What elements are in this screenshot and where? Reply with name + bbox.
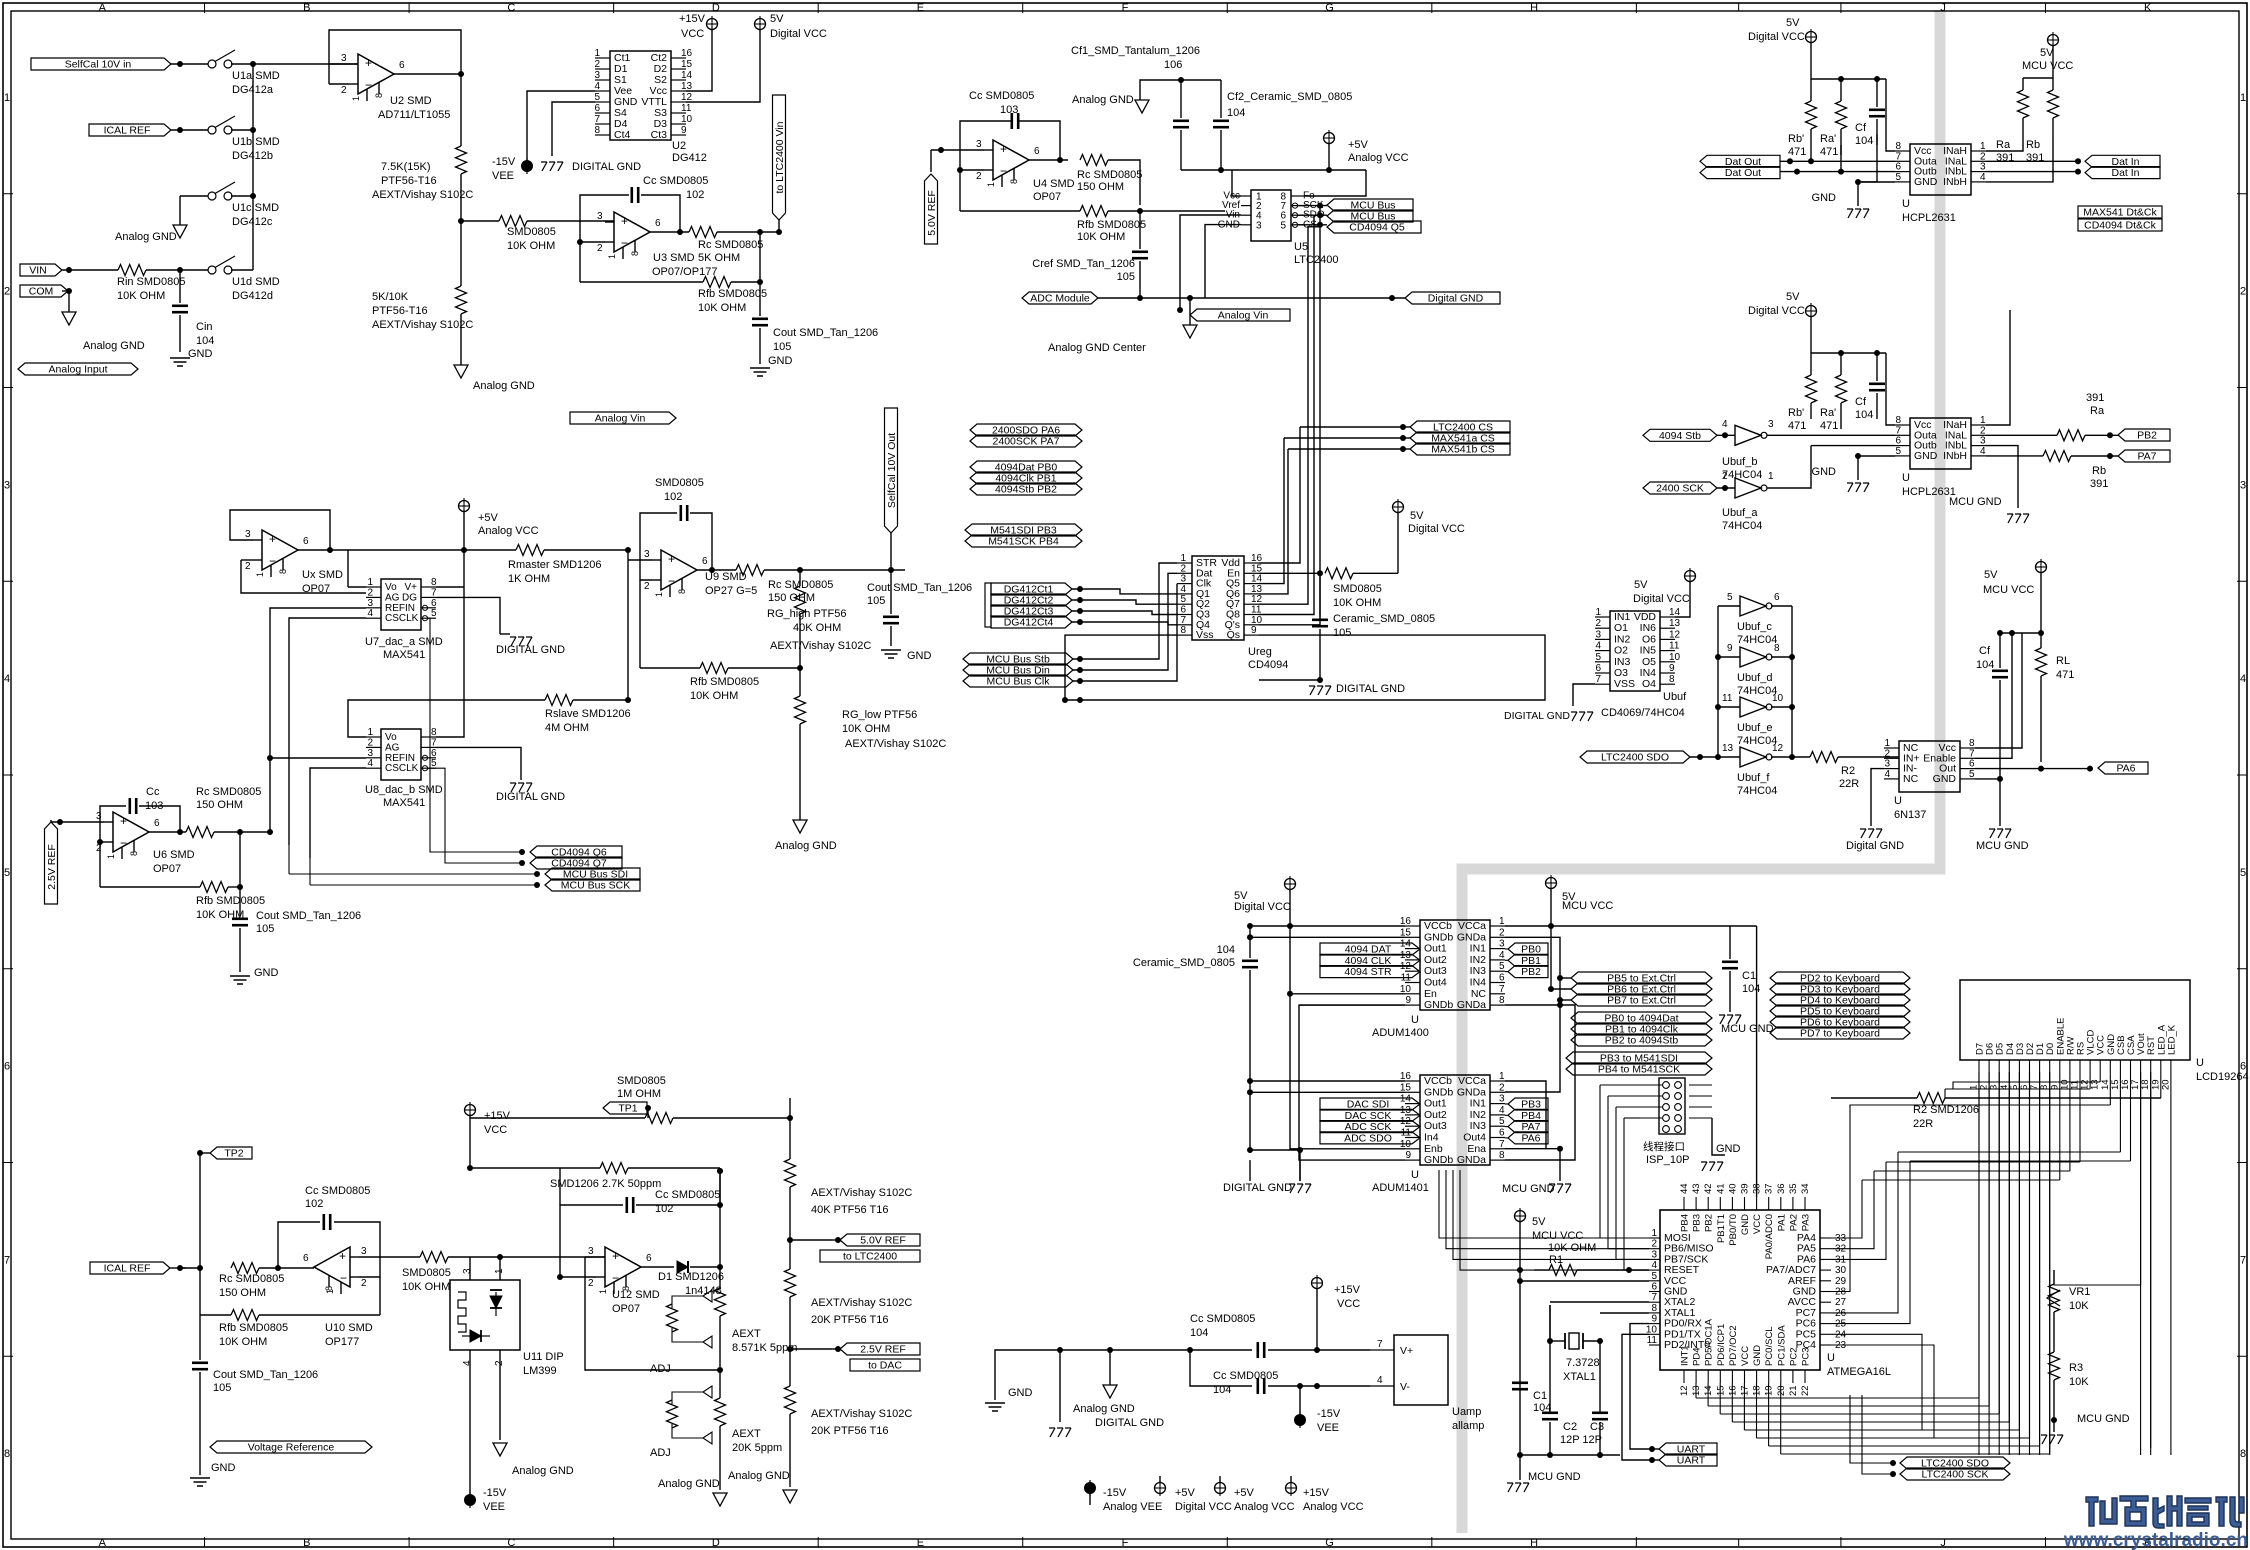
ground Analog GND xyxy=(1135,100,1149,113)
svg-text:Digital VCC: Digital VCC xyxy=(770,28,827,40)
wire feedback U9 xyxy=(640,513,677,580)
svg-text:MCU VCC: MCU VCC xyxy=(2022,60,2073,72)
svg-text:PA7: PA7 xyxy=(2137,451,2156,463)
IC U11 LM399 xyxy=(450,1280,520,1350)
wire VOut to VR1 xyxy=(2140,1072,2142,1285)
wire xyxy=(573,699,628,701)
power -15V VEE xyxy=(521,160,533,172)
wire xyxy=(298,549,330,551)
wire R2 row xyxy=(1831,1097,1917,1099)
svg-text:4: 4 xyxy=(1499,950,1505,961)
svg-text:9: 9 xyxy=(1251,625,1257,636)
svg-text:3: 3 xyxy=(594,70,600,81)
svg-text:1: 1 xyxy=(654,592,664,597)
wire xyxy=(1810,145,1812,161)
svg-text:3: 3 xyxy=(1499,1094,1505,1105)
wire GND pin5 xyxy=(1975,779,2000,826)
svg-text:PB2 to 4094Stb: PB2 to 4094Stb xyxy=(1605,1035,1679,1047)
wire VCCa2 xyxy=(1505,1081,1546,1149)
svg-text:Vo: Vo xyxy=(385,732,397,743)
analog switch U1d DG412d xyxy=(208,266,216,274)
svg-text:Dat Out: Dat Out xyxy=(1725,167,1761,179)
svg-text:LCD19264: LCD19264 xyxy=(2196,1071,2249,1083)
svg-text:GNDa: GNDa xyxy=(1457,931,1486,943)
wire 2.5V REF row xyxy=(790,1348,832,1350)
svg-text:105: 105 xyxy=(1333,627,1351,639)
svg-text:IN2: IN2 xyxy=(1470,1109,1487,1121)
svg-text:Analog GND: Analog GND xyxy=(1073,1403,1135,1415)
wire Qs loop xyxy=(1065,635,1177,700)
svg-text:5: 5 xyxy=(431,608,437,619)
svg-text:Cc SMD0805: Cc SMD0805 xyxy=(1190,1313,1255,1325)
net flag PD5 to Keyboard xyxy=(1770,1005,1910,1017)
svg-text:4: 4 xyxy=(367,608,373,619)
svg-text:AEXT/Vishay S102C: AEXT/Vishay S102C xyxy=(845,738,946,750)
svg-text:4: 4 xyxy=(1980,172,1986,183)
svg-text:6: 6 xyxy=(1034,146,1040,157)
svg-text:GND: GND xyxy=(1914,176,1938,188)
svg-text:In4: In4 xyxy=(1424,1132,1439,1144)
svg-text:16: 16 xyxy=(681,48,693,59)
svg-text:4: 4 xyxy=(1377,1375,1383,1386)
svg-text:104: 104 xyxy=(1855,409,1873,421)
op-amp U12 OP07 xyxy=(605,1247,641,1287)
wire DG xyxy=(436,597,500,634)
svg-text:1: 1 xyxy=(255,572,265,577)
svg-text:8: 8 xyxy=(1009,179,1019,184)
wire xyxy=(139,806,180,832)
wire xyxy=(231,63,253,65)
svg-text:11: 11 xyxy=(1669,641,1680,652)
capacitor Cout SMD_Tan_1206 (U6) xyxy=(232,917,248,920)
net flag DG412Ct4 xyxy=(991,616,1072,628)
svg-text:IN3: IN3 xyxy=(1470,965,1487,977)
svg-text:150 OHM: 150 OHM xyxy=(768,592,815,604)
wire xyxy=(448,1256,605,1258)
svg-text:AEXT: AEXT xyxy=(732,1328,761,1340)
capacitor Cout SMD_Tan_1206 (U9) xyxy=(890,570,892,614)
IC U2 DG412 (quad switch) xyxy=(610,51,671,140)
svg-text:5: 5 xyxy=(594,92,600,103)
svg-text:102: 102 xyxy=(305,1198,323,1210)
svg-text:DIGITAL GND: DIGITAL GND xyxy=(1223,1182,1292,1194)
svg-text:4094Stb PB2: 4094Stb PB2 xyxy=(995,484,1057,496)
ground Analog GND (RG) xyxy=(793,820,807,833)
svg-text:Analog GND: Analog GND xyxy=(473,380,535,392)
svg-text:5: 5 xyxy=(1499,961,1505,972)
svg-text:27: 27 xyxy=(1835,1297,1847,1308)
power 5V Digital VCC (ADUM) xyxy=(1285,879,1296,890)
svg-text:GND: GND xyxy=(907,650,932,662)
svg-text:Rfb SMD0805: Rfb SMD0805 xyxy=(196,895,265,907)
svg-text:C2: C2 xyxy=(1563,1421,1577,1433)
wire xyxy=(2071,455,2118,457)
svg-text:OP07: OP07 xyxy=(153,863,181,875)
svg-text:MAX541: MAX541 xyxy=(383,797,425,809)
svg-text:2: 2 xyxy=(1651,1239,1657,1250)
wire feedback through Cc xyxy=(580,241,605,243)
net flag 5.0V REF (vertical) xyxy=(925,174,938,244)
wire Ext.Ctrl stubs xyxy=(1557,975,1563,981)
svg-text:AEXT: AEXT xyxy=(732,1428,761,1440)
net flag PB6 to Ext.Ctrl xyxy=(1571,983,1712,995)
svg-text:PTF56-T16: PTF56-T16 xyxy=(381,175,437,187)
net flag DG412Ct3 xyxy=(991,605,1072,617)
svg-text:391: 391 xyxy=(2086,392,2104,404)
svg-text:线程接口: 线程接口 xyxy=(1643,1140,1685,1153)
wire xyxy=(731,281,760,283)
svg-text:Analog VCC: Analog VCC xyxy=(1348,152,1409,164)
svg-text:Ra': Ra' xyxy=(1820,133,1836,145)
svg-text:U1d SMD: U1d SMD xyxy=(232,276,280,288)
wire xyxy=(728,667,800,669)
wire xyxy=(1519,1222,1521,1455)
svg-text:5V: 5V xyxy=(1634,579,1648,591)
svg-text:K: K xyxy=(2144,2,2152,14)
svg-text:PB7 to Ext.Ctrl: PB7 to Ext.Ctrl xyxy=(1607,995,1676,1007)
svg-text:Rc SMD0805: Rc SMD0805 xyxy=(219,1273,284,1285)
svg-text:10K OHM: 10K OHM xyxy=(1548,1242,1596,1254)
svg-text:+5V: +5V xyxy=(1175,1487,1196,1499)
svg-text:GNDb: GNDb xyxy=(1424,999,1453,1011)
svg-text:6: 6 xyxy=(431,598,437,609)
svg-text:4: 4 xyxy=(594,81,600,92)
svg-text:5: 5 xyxy=(431,758,437,769)
svg-text:Dat In: Dat In xyxy=(2111,167,2139,179)
svg-text:GND: GND xyxy=(1914,450,1938,462)
svg-text:V-: V- xyxy=(1400,1381,1410,1393)
svg-text:GNDa: GNDa xyxy=(1457,999,1486,1011)
svg-text:IN2: IN2 xyxy=(1470,954,1487,966)
svg-text:I: I xyxy=(1737,2,1740,14)
wire xyxy=(170,1267,186,1269)
svg-text:Analog GND: Analog GND xyxy=(1072,94,1134,106)
resistor SMD0805 1M OHM xyxy=(470,1117,645,1119)
svg-text:IN3: IN3 xyxy=(1614,656,1631,668)
wire V+ U8 xyxy=(436,587,464,737)
svg-text:Out1: Out1 xyxy=(1424,1098,1447,1110)
svg-text:ADC SDO: ADC SDO xyxy=(1344,1132,1392,1144)
svg-text:8: 8 xyxy=(1499,995,1505,1006)
svg-text:Out4: Out4 xyxy=(1424,977,1447,989)
wire xyxy=(1029,159,1068,161)
svg-text:IN6: IN6 xyxy=(1640,622,1657,634)
net flag CD4094 Q7 xyxy=(530,857,622,869)
wire xyxy=(2040,573,2042,633)
net flag PB2 to 4094Stb xyxy=(1571,1034,1712,1046)
wire xyxy=(690,1266,720,1268)
svg-text:OP07: OP07 xyxy=(612,1303,640,1315)
svg-text:5: 5 xyxy=(1895,172,1901,183)
wire xyxy=(1886,353,1895,425)
svg-text:PC0/SCL: PC0/SCL xyxy=(1764,1326,1775,1366)
svg-text:Rc SMD0805: Rc SMD0805 xyxy=(196,786,261,798)
svg-text:3: 3 xyxy=(1499,939,1505,950)
svg-text:CD4094 Q5: CD4094 Q5 xyxy=(1349,222,1405,234)
wire xyxy=(100,886,200,888)
resistor Rc SMD0805 150 (U9) xyxy=(736,565,764,576)
svg-text:7: 7 xyxy=(1377,1339,1383,1350)
svg-text:ADJ: ADJ xyxy=(650,1447,671,1459)
wire xyxy=(717,231,779,233)
net flag PB4 to M541SCK xyxy=(1566,1063,1712,1075)
svg-text:13: 13 xyxy=(1722,743,1734,754)
wire xyxy=(197,1150,203,1156)
ground Analog GND (chain2) xyxy=(783,1490,797,1503)
svg-text:Digital VCC: Digital VCC xyxy=(1408,523,1465,535)
resistor AEXT 20K PTF56 T16 (low) xyxy=(789,1349,791,1386)
resistor SMD1206 2.7K 50ppm xyxy=(600,1163,628,1174)
svg-text:IN4: IN4 xyxy=(1640,667,1657,679)
svg-text:O2: O2 xyxy=(1614,645,1628,657)
svg-text:5: 5 xyxy=(1969,769,1975,780)
wire xyxy=(171,129,208,131)
svg-text:C3: C3 xyxy=(1590,1421,1604,1433)
svg-text:14: 14 xyxy=(681,70,693,81)
svg-text:VEE: VEE xyxy=(483,1501,505,1513)
svg-text:Analog VCC: Analog VCC xyxy=(1234,1501,1295,1513)
svg-text:Rb': Rb' xyxy=(1788,407,1804,419)
svg-text:106: 106 xyxy=(1164,59,1182,71)
svg-text:C1: C1 xyxy=(1533,1390,1547,1402)
resistor Ra 391 xyxy=(2018,90,2029,118)
wire xyxy=(1181,169,1366,171)
svg-text:RL: RL xyxy=(2056,655,2070,667)
svg-text:U1c SMD: U1c SMD xyxy=(232,202,279,214)
capacitor Ceramic_SMD_0805 104 xyxy=(1242,959,1258,962)
svg-text:Ureg: Ureg xyxy=(1248,646,1272,658)
svg-text:PB4: PB4 xyxy=(1680,1214,1691,1232)
svg-text:4094 Stb: 4094 Stb xyxy=(1659,430,1701,442)
wire xyxy=(686,30,760,102)
svg-text:ICAL REF: ICAL REF xyxy=(104,1263,151,1275)
svg-text:5V: 5V xyxy=(1410,510,1424,522)
wire left rail xyxy=(1289,890,1291,926)
wire xyxy=(394,73,461,75)
highlight marker (grey) xyxy=(1462,10,1940,1533)
net flag 2.5V REF (vertical) xyxy=(45,822,58,904)
svg-text:Voltage Reference: Voltage Reference xyxy=(248,1442,335,1454)
resistor Rc SMD0805 150 (U6) xyxy=(186,827,214,838)
resistor RG_high PTF56 40K xyxy=(799,570,801,586)
svg-text:6: 6 xyxy=(303,1253,309,1264)
wire xyxy=(552,102,595,156)
svg-text:U: U xyxy=(1411,1169,1419,1181)
svg-text:Rmaster SMD1206: Rmaster SMD1206 xyxy=(508,559,602,571)
svg-text:7: 7 xyxy=(1499,984,1505,995)
svg-text:5: 5 xyxy=(1280,220,1286,231)
resistor Rb 391 xyxy=(2048,90,2059,118)
capacitor Cc SMD0805 102 (U12) xyxy=(625,1197,628,1213)
svg-text:TP2: TP2 xyxy=(224,1148,243,1160)
svg-text:8: 8 xyxy=(278,569,288,574)
net flag PB0 to 4094Dat xyxy=(1571,1012,1712,1024)
wire xyxy=(62,290,69,292)
svg-text:15: 15 xyxy=(681,59,693,70)
svg-text:102: 102 xyxy=(686,189,704,201)
wire xyxy=(2053,1420,2055,1432)
svg-text:GNDb: GNDb xyxy=(1424,931,1453,943)
svg-text:GND: GND xyxy=(1812,466,1837,478)
svg-text:9: 9 xyxy=(1405,1150,1411,1161)
wire VSS xyxy=(1573,684,1595,706)
net flag UART (tx) xyxy=(1659,1454,1717,1466)
svg-text:CSCLK: CSCLK xyxy=(385,763,419,774)
svg-text:U11 DIP: U11 DIP xyxy=(523,1351,564,1363)
wire xyxy=(463,512,465,587)
svg-text:J: J xyxy=(1940,2,1946,14)
op-amp U3 OP07/OP177 xyxy=(614,212,650,252)
ground Analog GND xyxy=(454,365,468,378)
svg-text:3: 3 xyxy=(2240,479,2246,491)
svg-text:+: + xyxy=(120,814,127,828)
svg-text:4: 4 xyxy=(1722,419,1728,430)
op-amp U9 OP27 G=5 xyxy=(661,550,697,590)
svg-text:21: 21 xyxy=(1788,1385,1799,1396)
svg-text:MCU GND: MCU GND xyxy=(1528,1471,1581,1483)
net flag TP1 xyxy=(603,1102,647,1114)
svg-text:103: 103 xyxy=(1000,104,1018,116)
IC Uamp allamp xyxy=(1394,1335,1448,1405)
ground MCU GND xyxy=(1989,828,1995,830)
capacitor Cf 104 xyxy=(1999,633,2001,668)
svg-text:5V: 5V xyxy=(1532,1216,1546,1228)
svg-text:PA6: PA6 xyxy=(2116,763,2135,775)
net flag MCU Bus (SDO) xyxy=(1327,210,1413,222)
box label to DAC xyxy=(850,1359,920,1371)
wire RST xyxy=(2150,1072,2152,1448)
svg-text:+15V: +15V xyxy=(1303,1487,1330,1499)
svg-text:6: 6 xyxy=(303,536,309,547)
svg-text:6: 6 xyxy=(594,103,600,114)
svg-text:B: B xyxy=(303,1537,310,1549)
power 5V Digital VCC xyxy=(1806,32,1817,43)
svg-text:5K/10K: 5K/10K xyxy=(372,291,409,303)
wire xyxy=(461,220,499,222)
power +5V Analog VCC xyxy=(1324,133,1335,144)
wire xyxy=(559,1168,561,1205)
ground DIGITAL GND xyxy=(541,161,547,163)
resistor R3 10K xyxy=(2049,1352,2060,1380)
svg-text:GNDb: GNDb xyxy=(1424,1086,1453,1098)
svg-text:1: 1 xyxy=(1595,607,1601,618)
svg-text:U: U xyxy=(1827,1352,1835,1364)
svg-text:DIGITAL GND: DIGITAL GND xyxy=(496,644,565,656)
svg-text:10K OHM: 10K OHM xyxy=(690,690,738,702)
wire CSCLK bus xyxy=(289,618,366,845)
net flag MCU Bus SCK xyxy=(545,879,640,891)
wire xyxy=(1139,261,1141,298)
svg-text:22R: 22R xyxy=(1913,1118,1933,1130)
wire xyxy=(146,269,208,271)
svg-text:VCCb: VCCb xyxy=(1424,1075,1452,1087)
svg-text:PA3: PA3 xyxy=(1801,1214,1812,1231)
svg-text:VDD: VDD xyxy=(1634,611,1657,623)
svg-text:M541SCK PB4: M541SCK PB4 xyxy=(988,536,1059,548)
svg-text:8: 8 xyxy=(129,851,139,856)
svg-text:1: 1 xyxy=(1499,1071,1505,1082)
wire xyxy=(1780,171,1895,173)
wire xyxy=(1305,170,1366,196)
wire feedback xyxy=(960,169,984,171)
wire IN- to Digital GND xyxy=(1871,769,1884,826)
svg-text:Qs: Qs xyxy=(1227,629,1240,641)
diode D1 SMD1206 1n4148 xyxy=(677,1261,688,1273)
svg-text:Rfb SMD0805: Rfb SMD0805 xyxy=(698,288,767,300)
svg-text:2: 2 xyxy=(367,587,373,598)
IC U ADUM1401 xyxy=(1420,1075,1490,1165)
svg-text:AEXT/Vishay S102C: AEXT/Vishay S102C xyxy=(372,319,473,331)
wire En to resistor xyxy=(1259,572,1320,574)
wire xyxy=(231,269,253,271)
svg-text:IN2: IN2 xyxy=(1614,633,1631,645)
wire feedback xyxy=(329,63,349,65)
power +15V Analog VCC (row) xyxy=(1286,1483,1297,1494)
svg-text:G: G xyxy=(1325,2,1334,14)
svg-text:11: 11 xyxy=(681,103,692,114)
net flag UART (rx) xyxy=(1659,1443,1717,1455)
net flag ICAL REF xyxy=(89,124,171,136)
inverter Ubuf_f 74HC04 xyxy=(1740,747,1766,767)
svg-text:−: − xyxy=(1000,164,1007,178)
svg-text:Out3: Out3 xyxy=(1424,1120,1447,1132)
resistor RL 471 xyxy=(2040,633,2042,648)
svg-text:74HC04: 74HC04 xyxy=(1722,520,1762,532)
svg-text:74HC04: 74HC04 xyxy=(1737,634,1777,646)
net flag PA6 xyxy=(2098,762,2148,774)
svg-text:2: 2 xyxy=(1595,618,1601,629)
wire xyxy=(1810,403,1812,419)
svg-text:XTAL1: XTAL1 xyxy=(1563,1371,1596,1383)
svg-text:5: 5 xyxy=(1895,446,1901,457)
svg-text:LTC2400 SCK: LTC2400 SCK xyxy=(1922,1469,1989,1481)
svg-text:VCCa: VCCa xyxy=(1458,1075,1486,1087)
svg-text:10K: 10K xyxy=(2069,1300,2089,1312)
capacitor C2 12P xyxy=(1542,1412,1558,1415)
svg-text:DIGITAL GND: DIGITAL GND xyxy=(1504,710,1570,722)
svg-text:10K OHM: 10K OHM xyxy=(698,302,746,314)
svg-text:+: + xyxy=(339,1249,346,1263)
svg-text:UART: UART xyxy=(1677,1455,1706,1467)
svg-text:20: 20 xyxy=(1776,1385,1787,1396)
svg-text:AEXT/Vishay S102C: AEXT/Vishay S102C xyxy=(811,1408,912,1420)
svg-text:9: 9 xyxy=(1727,643,1733,654)
svg-text:105: 105 xyxy=(867,595,885,607)
wire right chain xyxy=(789,1098,791,1159)
svg-text:29: 29 xyxy=(1835,1276,1847,1287)
wire xyxy=(1649,1446,1655,1452)
wire xyxy=(259,1267,278,1269)
svg-text:471: 471 xyxy=(1820,146,1838,158)
capacitor Cref SMD_Tan_1206 105 xyxy=(1132,251,1148,254)
svg-text:HCPL2631: HCPL2631 xyxy=(1902,212,1956,224)
capacitor SMD0805 102 (U9) xyxy=(679,505,682,521)
svg-text:DIGITAL GND: DIGITAL GND xyxy=(496,791,565,803)
wire LED_A row xyxy=(2160,1072,2162,1098)
wire GND14 xyxy=(2109,1072,2111,1105)
svg-text:U6 SMD: U6 SMD xyxy=(153,849,195,861)
svg-text:U: U xyxy=(1902,472,1910,484)
svg-text:+5V: +5V xyxy=(1234,1487,1255,1499)
svg-text:4: 4 xyxy=(1884,769,1890,780)
svg-text:SelfCal 10V Out: SelfCal 10V Out xyxy=(886,433,898,508)
wire VLCD xyxy=(2089,1072,2091,1089)
svg-text:8: 8 xyxy=(1669,674,1675,685)
wire xyxy=(1317,677,1323,683)
svg-text:V+: V+ xyxy=(404,582,417,593)
svg-text:Analog VEE: Analog VEE xyxy=(1103,1501,1162,1513)
power 5V Digital VCC (Ubuf) xyxy=(1685,571,1696,582)
